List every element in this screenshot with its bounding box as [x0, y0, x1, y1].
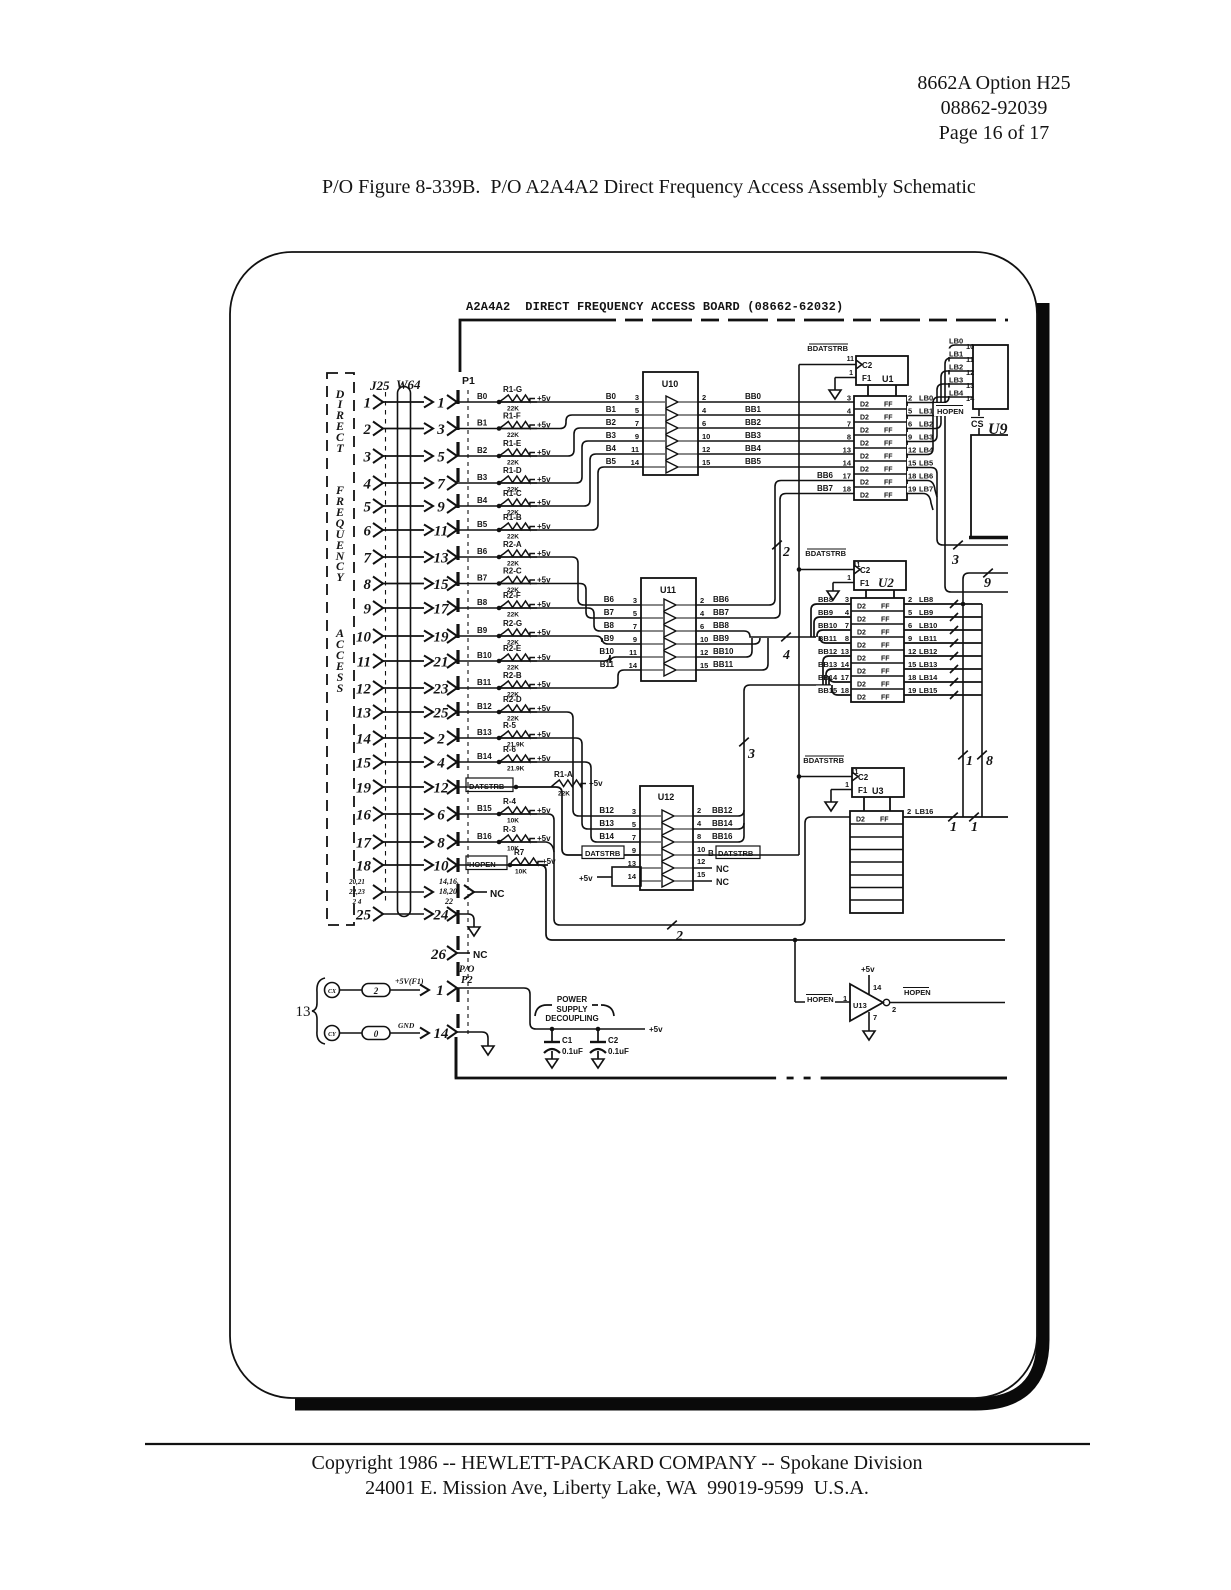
resistor R1-C 22K pullup — [497, 504, 502, 509]
svg-text:B12: B12 — [599, 806, 614, 815]
svg-text:22K: 22K — [558, 791, 570, 798]
svg-text:D2: D2 — [857, 695, 866, 702]
node B9 — [457, 635, 499, 637]
U2 input stubs BB8-BB15 — [816, 595, 850, 604]
wire BB11 joins bus — [695, 638, 768, 670]
rounded frame — [230, 252, 1037, 1398]
svg-text:U1: U1 — [882, 374, 894, 384]
svg-text:LB0: LB0 — [949, 337, 963, 346]
node B13 — [457, 737, 499, 739]
svg-text:LB13: LB13 — [919, 660, 937, 669]
svg-text:R1-E: R1-E — [503, 439, 522, 448]
svg-text:LB10: LB10 — [919, 621, 937, 630]
svg-text:NC: NC — [473, 950, 487, 961]
node B5 — [457, 529, 499, 531]
svg-text:B12: B12 — [477, 702, 492, 711]
wire LB2 to U9 pin 12 — [906, 371, 973, 429]
svg-text:BB3: BB3 — [745, 431, 762, 440]
bus continues to U2 stubs — [813, 636, 820, 638]
wire pin14 to ground — [457, 1032, 488, 1046]
svg-text:B13: B13 — [599, 819, 614, 828]
resistor R1-A 22K pullup — [514, 785, 519, 790]
svg-text:LB6: LB6 — [919, 472, 933, 481]
bus slashes 1,1 at LB16 row — [948, 813, 958, 822]
wire — [340, 989, 363, 991]
svg-text:P/O Figure 8-339B. P/O A2A4A2: P/O Figure 8-339B. P/O A2A4A2 Direct Fre… — [322, 176, 976, 198]
resistor R2-C 22K pullup — [497, 581, 502, 586]
svg-text:11: 11 — [631, 445, 639, 454]
svg-text:R2-E: R2-E — [503, 644, 522, 653]
wire BB8 bus — [695, 631, 813, 637]
svg-text:8: 8 — [437, 836, 445, 852]
svg-text:NC: NC — [716, 877, 729, 887]
svg-text:BB12: BB12 — [712, 806, 733, 815]
svg-text:U10: U10 — [662, 379, 679, 389]
svg-text:13: 13 — [434, 551, 450, 567]
node HOPEN (gate output) — [903, 987, 929, 989]
svg-text:R7: R7 — [514, 848, 525, 857]
connector CX circle — [325, 983, 340, 998]
svg-text:1: 1 — [437, 396, 445, 412]
svg-text:BB0: BB0 — [745, 392, 762, 401]
svg-text:11: 11 — [853, 562, 861, 569]
svg-text:B1: B1 — [477, 419, 488, 428]
svg-text:08862-92039: 08862-92039 — [941, 97, 1048, 119]
svg-text:D2: D2 — [860, 467, 869, 474]
svg-text:FF: FF — [884, 454, 893, 461]
wire LB5,LB6,LB7 bus down — [906, 468, 1008, 546]
svg-text:BB4: BB4 — [745, 444, 762, 453]
svg-text:B10: B10 — [477, 651, 492, 660]
svg-text:U2: U2 — [878, 575, 894, 590]
svg-text:11: 11 — [851, 769, 859, 776]
svg-text:21: 21 — [433, 655, 449, 671]
svg-text:6: 6 — [700, 622, 704, 631]
svg-text:U3: U3 — [872, 786, 884, 796]
svg-text:17: 17 — [843, 472, 851, 481]
svg-text:FF: FF — [881, 630, 890, 637]
svg-text:15: 15 — [702, 458, 710, 467]
svg-text:FF: FF — [884, 415, 893, 422]
wire BDATSTRB vertical bus — [798, 365, 800, 856]
svg-text:LB2: LB2 — [949, 363, 963, 372]
svg-text:5: 5 — [633, 609, 637, 618]
ground (U2 F1) — [827, 591, 839, 600]
svg-text:3: 3 — [635, 393, 639, 402]
node B1 — [457, 428, 499, 430]
svg-text:1: 1 — [843, 994, 847, 1003]
bus slash 4 — [781, 633, 791, 642]
svg-text:2: 2 — [907, 807, 911, 816]
svg-text:B0: B0 — [606, 392, 617, 401]
svg-text:18: 18 — [356, 859, 372, 875]
resistor R1-G 22K pullup — [497, 400, 502, 405]
svg-text:B8: B8 — [477, 598, 488, 607]
svg-text:12: 12 — [908, 647, 916, 656]
svg-text:B5: B5 — [477, 520, 488, 529]
svg-text:7: 7 — [873, 1013, 877, 1022]
svg-text:10: 10 — [702, 432, 710, 441]
svg-text:10K: 10K — [515, 869, 527, 876]
svg-text:1: 1 — [966, 754, 973, 769]
svg-text:R2-G: R2-G — [503, 619, 522, 628]
node B10 — [457, 660, 499, 662]
svg-text:2: 2 — [363, 422, 372, 438]
frame drop shadow — [295, 303, 1043, 1404]
svg-text:2: 2 — [675, 929, 683, 944]
svg-text:U11: U11 — [660, 585, 676, 595]
svg-text:6: 6 — [364, 524, 372, 540]
svg-text:R-3: R-3 — [503, 825, 516, 834]
svg-text:B16: B16 — [477, 832, 492, 841]
svg-text:10: 10 — [356, 630, 372, 646]
wire BB10 joins bus — [695, 638, 752, 657]
wire bus B15,B16 to U3 (loop) — [537, 814, 850, 925]
svg-text:3: 3 — [363, 450, 372, 466]
inline connector pin 2 — [362, 984, 390, 997]
svg-text:22,23: 22,23 — [348, 888, 365, 896]
svg-text:BB11: BB11 — [713, 660, 734, 669]
svg-text:C2: C2 — [858, 773, 869, 782]
svg-text:Copyright 1986 -- HEWLETT-PACK: Copyright 1986 -- HEWLETT-PACKARD COMPAN… — [312, 1452, 923, 1474]
svg-text:8: 8 — [845, 634, 849, 643]
U2 outputs LB8-LB15 — [906, 595, 940, 604]
svg-text:R2-B: R2-B — [503, 671, 522, 680]
svg-text:14: 14 — [631, 458, 640, 467]
svg-text:F1: F1 — [862, 374, 872, 383]
svg-text:BB1: BB1 — [745, 405, 762, 414]
svg-text:3: 3 — [847, 394, 851, 403]
svg-text:14: 14 — [841, 660, 850, 669]
bus slash 1 (V1) — [958, 751, 968, 760]
capacitor C2 0.1uF — [596, 1027, 601, 1032]
bus wire x3 up to U2 inputs — [744, 685, 831, 836]
svg-text:15: 15 — [908, 459, 916, 468]
flip-flop register U2 cell stack — [851, 598, 904, 702]
svg-text:13: 13 — [296, 1004, 311, 1020]
svg-text:25: 25 — [355, 908, 372, 924]
resistor R1-F 22K pullup — [497, 426, 502, 431]
svg-text:BDATSTRB: BDATSTRB — [803, 756, 844, 765]
svg-text:BB2: BB2 — [745, 418, 762, 427]
svg-text:B9: B9 — [477, 626, 488, 635]
svg-text:LB9: LB9 — [919, 608, 933, 617]
svg-text:BB8: BB8 — [713, 621, 730, 630]
svg-text:NC: NC — [716, 864, 729, 874]
svg-text:15: 15 — [700, 661, 708, 670]
svg-text:D2: D2 — [860, 415, 869, 422]
svg-text:B15: B15 — [477, 804, 492, 813]
ground (C1) — [546, 1059, 558, 1068]
svg-text:LB14: LB14 — [919, 673, 938, 682]
resistor R7 10K pullup — [508, 863, 513, 868]
svg-text:BB16: BB16 — [712, 832, 733, 841]
bus slash 3 — [739, 738, 749, 747]
svg-text:LB4: LB4 — [949, 389, 964, 398]
svg-text:CX: CX — [328, 989, 337, 995]
ground (P2 pin 14) — [482, 1046, 494, 1055]
svg-text:13: 13 — [841, 647, 849, 656]
resistor R2-D 22K pullup — [497, 710, 502, 715]
svg-text:B3: B3 — [477, 473, 488, 482]
svg-text:+5v: +5v — [861, 965, 875, 974]
svg-text:LB1: LB1 — [919, 407, 933, 416]
svg-text:B9: B9 — [604, 634, 615, 643]
svg-text:BB7: BB7 — [817, 484, 834, 493]
node B3 — [457, 482, 499, 484]
svg-text:HOPEN: HOPEN — [469, 860, 496, 869]
svg-text:B11: B11 — [477, 678, 492, 687]
resistor R1-B 22K pullup — [497, 528, 502, 533]
wire P2 pin1 down to board boundary — [455, 1037, 458, 1078]
resistor R2-A 22K pullup — [497, 555, 502, 560]
svg-text:12: 12 — [908, 446, 916, 455]
svg-text:9: 9 — [437, 500, 445, 516]
svg-text:D2: D2 — [857, 682, 866, 689]
capacitor C1 0.1uF — [550, 1027, 555, 1032]
svg-text:S: S — [337, 681, 344, 695]
wires BB0-BB5 from U10 to U1 — [698, 401, 854, 403]
buffer IC U11 — [641, 578, 696, 681]
svg-text:FF: FF — [884, 467, 893, 474]
svg-text:R2-A: R2-A — [503, 540, 522, 549]
svg-text:D2: D2 — [860, 402, 869, 409]
svg-text:0.1uF: 0.1uF — [608, 1047, 629, 1056]
wire LB0 to U9 pin 10 — [906, 345, 973, 403]
svg-text:7: 7 — [847, 420, 851, 429]
node B2 — [457, 455, 499, 457]
svg-text:21.9K: 21.9K — [507, 766, 525, 773]
svg-text:B10: B10 — [599, 647, 614, 656]
svg-text:C2: C2 — [608, 1036, 619, 1045]
node +5V(F1) — [390, 989, 420, 991]
wire bus vertical V2 — [981, 604, 983, 817]
svg-text:18: 18 — [843, 485, 851, 494]
svg-text:R1-G: R1-G — [503, 385, 522, 394]
svg-text:FF: FF — [884, 428, 893, 435]
svg-text:B: B — [708, 849, 714, 858]
svg-text:5: 5 — [635, 406, 639, 415]
svg-text:D2: D2 — [857, 669, 866, 676]
bus slash 9 — [983, 569, 993, 578]
svg-text:10: 10 — [697, 845, 705, 854]
svg-text:4: 4 — [436, 756, 445, 772]
ground (pin 24) — [468, 927, 480, 936]
bus slash 2 (BB6,BB7) — [772, 541, 782, 550]
connector J25 dashed line — [385, 392, 387, 905]
svg-text:B0: B0 — [477, 392, 488, 401]
svg-text:BB9: BB9 — [818, 608, 833, 617]
svg-text:B5: B5 — [606, 457, 617, 466]
node B12 — [457, 711, 499, 713]
svg-text:LB1: LB1 — [949, 350, 963, 359]
svg-text:C2: C2 — [862, 361, 873, 370]
svg-text:14: 14 — [434, 1026, 450, 1042]
svg-text:7: 7 — [632, 833, 636, 842]
wire — [340, 1032, 363, 1034]
svg-text:1: 1 — [847, 575, 851, 582]
svg-text:LB2: LB2 — [919, 420, 933, 429]
svg-text:+5V(F1): +5V(F1) — [395, 977, 424, 986]
svg-text:DECOUPLING: DECOUPLING — [545, 1014, 598, 1023]
inline connector pin 0 — [362, 1027, 390, 1040]
wires B6-B11 from P1 to U11 — [537, 557, 641, 605]
svg-text:5: 5 — [908, 608, 912, 617]
svg-text:2: 2 — [892, 1005, 896, 1014]
svg-text:2: 2 — [782, 545, 790, 560]
svg-text:8: 8 — [847, 433, 851, 442]
U13 output HOPEN — [890, 1002, 1005, 1004]
wire BB6 U11 to U1 — [695, 481, 854, 606]
svg-text:22K: 22K — [507, 432, 519, 439]
wires B0-B5 from P1 to U10 — [537, 401, 643, 403]
svg-text:B2: B2 — [606, 418, 617, 427]
ground (C2) — [592, 1059, 604, 1068]
svg-text:HOPEN: HOPEN — [904, 988, 931, 997]
node DATSTRB (U12) boxed label — [582, 846, 624, 859]
svg-text:6: 6 — [908, 420, 912, 429]
svg-text:2: 2 — [908, 394, 912, 403]
svg-text:A2A4A2 DIRECT FREQUENCY ACCES: A2A4A2 DIRECT FREQUENCY ACCESS BOARD (08… — [466, 300, 843, 314]
svg-text:8: 8 — [986, 754, 993, 769]
node B16 — [457, 841, 499, 843]
svg-text:2: 2 — [373, 986, 379, 996]
wire LB4 to U9 pin 14 — [906, 397, 973, 455]
svg-text:11: 11 — [357, 655, 371, 671]
svg-text:3: 3 — [436, 422, 445, 438]
svg-text:BB7: BB7 — [713, 608, 730, 617]
svg-text:5: 5 — [908, 407, 912, 416]
node DATSTRB (P1) — [457, 786, 516, 788]
wires B12,B13,B14 from P1 to U12 — [537, 712, 640, 816]
connector P1 heavy dashed line — [456, 390, 459, 1036]
svg-text:12: 12 — [697, 857, 705, 866]
node HOPEN (P1) — [457, 864, 510, 866]
svg-text:NC: NC — [490, 889, 504, 900]
svg-text:7: 7 — [633, 622, 637, 631]
svg-text:FF: FF — [880, 817, 889, 824]
node B11 — [457, 687, 499, 689]
svg-text:BDATSTRB: BDATSTRB — [805, 549, 846, 558]
wire B16 joins bus — [537, 842, 554, 852]
svg-text:8: 8 — [697, 832, 701, 841]
bus slash 3 (LB5-7) — [953, 541, 963, 550]
svg-text:7: 7 — [845, 621, 849, 630]
board boundary top — [460, 320, 576, 372]
svg-text:DATSTRB: DATSTRB — [469, 782, 505, 791]
svg-text:BB12: BB12 — [818, 647, 837, 656]
node B14 — [457, 761, 499, 763]
svg-text:T: T — [336, 441, 344, 455]
svg-text:DATSTRB: DATSTRB — [718, 849, 754, 858]
svg-text:B4: B4 — [606, 444, 617, 453]
svg-text:B14: B14 — [599, 832, 614, 841]
svg-text:FF: FF — [881, 617, 890, 624]
svg-text:HOPEN: HOPEN — [937, 407, 964, 416]
ground (U13 pin 7) — [863, 1031, 875, 1040]
svg-text:10: 10 — [434, 859, 450, 875]
svg-text:FF: FF — [884, 493, 893, 500]
wire BB7 U11 to U1 — [695, 494, 854, 619]
svg-text:11: 11 — [629, 648, 637, 657]
node B4 — [457, 505, 499, 507]
svg-text:FF: FF — [884, 402, 893, 409]
svg-text:D2: D2 — [860, 428, 869, 435]
wire bus 9 from edge — [963, 573, 1008, 817]
node HOPEN (gate input) — [805, 993, 835, 1004]
svg-text:2: 2 — [700, 596, 704, 605]
svg-text:13: 13 — [843, 446, 851, 455]
svg-text:B7: B7 — [477, 574, 488, 583]
svg-text:9: 9 — [632, 846, 636, 855]
svg-text:HOPEN: HOPEN — [807, 995, 834, 1004]
svg-text:D2: D2 — [860, 493, 869, 500]
svg-text:12: 12 — [434, 781, 450, 797]
svg-text:LB8: LB8 — [919, 595, 933, 604]
svg-text:19: 19 — [908, 686, 916, 695]
svg-text:R1-A: R1-A — [554, 770, 573, 779]
svg-text:BB9: BB9 — [713, 634, 730, 643]
resistor R-4 10K pullup — [497, 812, 502, 817]
svg-text:C1: C1 — [562, 1036, 573, 1045]
resistor R2-F 22K pullup — [497, 606, 502, 611]
svg-text:LB12: LB12 — [919, 647, 937, 656]
svg-text:15: 15 — [908, 660, 916, 669]
svg-text:BB13: BB13 — [818, 660, 837, 669]
svg-text:22: 22 — [444, 897, 453, 906]
svg-text:LB15: LB15 — [919, 686, 937, 695]
svg-text:BB6: BB6 — [817, 471, 834, 480]
svg-text:1: 1 — [971, 820, 978, 835]
svg-text:14: 14 — [873, 983, 882, 992]
ground (U3 F1) — [825, 802, 837, 811]
wire +5V(F1) to +5v rail — [457, 988, 645, 1029]
svg-text:18,20,: 18,20, — [439, 887, 459, 896]
svg-text:17: 17 — [841, 673, 849, 682]
svg-text:W64: W64 — [396, 377, 421, 392]
svg-text:18: 18 — [841, 686, 849, 695]
svg-text:14: 14 — [356, 732, 372, 748]
buffer IC U12 — [640, 786, 693, 890]
flip-flop register U2 control block — [854, 561, 906, 590]
svg-text:R2-F: R2-F — [503, 591, 521, 600]
svg-text:BDATSTRB: BDATSTRB — [807, 344, 848, 353]
svg-text:B4: B4 — [477, 496, 488, 505]
svg-text:BB5: BB5 — [745, 457, 762, 466]
svg-text:12: 12 — [356, 682, 372, 698]
node CS — [978, 409, 980, 416]
svg-text:2 4: 2 4 — [352, 898, 362, 906]
node B8 — [457, 607, 499, 609]
svg-text:3: 3 — [845, 595, 849, 604]
svg-text:FF: FF — [881, 656, 890, 663]
svg-text:B2: B2 — [477, 446, 488, 455]
svg-text:5: 5 — [364, 500, 372, 516]
connector P1 thin dashed line — [467, 390, 469, 1036]
svg-text:11: 11 — [847, 356, 855, 363]
svg-text:B8: B8 — [604, 621, 615, 630]
footer rule — [145, 1443, 1090, 1445]
svg-text:LB16: LB16 — [915, 807, 933, 816]
svg-text:10K: 10K — [507, 818, 519, 825]
svg-text:1: 1 — [849, 370, 853, 377]
svg-text:R1-B: R1-B — [503, 513, 522, 522]
svg-text:D2: D2 — [857, 617, 866, 624]
svg-text:LB11: LB11 — [919, 634, 937, 643]
svg-text:20,21: 20,21 — [348, 878, 365, 886]
resistor R1-D 22K pullup — [497, 481, 502, 486]
svg-text:R-4: R-4 — [503, 797, 516, 806]
